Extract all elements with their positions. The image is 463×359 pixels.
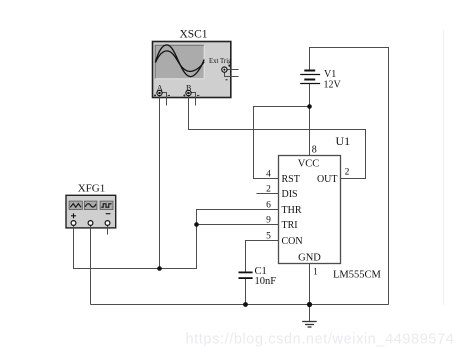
svg-text:U1: U1 (336, 134, 351, 148)
svg-text:https://blog.csdn.net/weixin_4: https://blog.csdn.net/weixin_44989574 (186, 332, 455, 348)
svg-text:DIS: DIS (282, 189, 298, 200)
svg-text:6: 6 (266, 201, 271, 211)
svg-text:5: 5 (266, 232, 271, 242)
svg-text:TRI: TRI (282, 220, 298, 231)
svg-text:GND: GND (298, 253, 321, 264)
svg-text:CON: CON (282, 236, 303, 247)
svg-text:LM555CM: LM555CM (333, 270, 382, 281)
svg-text:OUT: OUT (317, 174, 338, 185)
svg-text:2: 2 (345, 168, 350, 178)
svg-text:XSC1: XSC1 (179, 29, 207, 41)
svg-text:4: 4 (266, 170, 271, 180)
svg-text:Ext Trig: Ext Trig (209, 58, 232, 65)
svg-text:12V: 12V (324, 80, 342, 91)
svg-text:VCC: VCC (298, 159, 320, 170)
svg-text:10nF: 10nF (255, 276, 277, 287)
svg-text:2: 2 (266, 185, 271, 195)
svg-text:RST: RST (282, 174, 300, 185)
svg-text:9: 9 (266, 216, 271, 226)
svg-text:THR: THR (282, 205, 302, 216)
svg-text:1: 1 (313, 268, 318, 278)
svg-text:8: 8 (312, 144, 317, 155)
svg-text:XFG1: XFG1 (78, 183, 106, 195)
svg-text:V1: V1 (324, 69, 336, 80)
